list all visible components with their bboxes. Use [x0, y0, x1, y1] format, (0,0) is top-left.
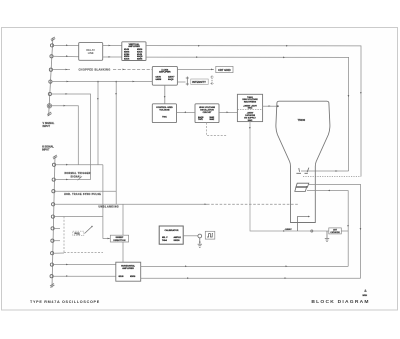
connector J1 body line — [49, 38, 53, 117]
J1 pin 2 — [50, 55, 53, 58]
CRT grid label box — [216, 66, 233, 72]
svg-text:AMPLIFIER: AMPLIFIER — [159, 71, 171, 74]
J2 pin 8 — [51, 252, 54, 255]
arrow h out2 mid — [285, 277, 287, 279]
cal out connector — [198, 234, 202, 238]
wire Z amp down to grid supply — [164, 85, 166, 104]
arrow down x348b — [347, 225, 349, 227]
arrow rect to crt — [269, 105, 271, 107]
CRT envelope — [276, 101, 330, 222]
svg-text:CRT GRID: CRT GRID — [218, 68, 231, 72]
intensity label — [191, 79, 208, 84]
connector J1 bottom break — [47, 112, 51, 116]
CRT gun hook — [298, 217, 310, 232]
arrow unblanking junction — [205, 203, 207, 205]
arrow pin5 wire — [66, 93, 68, 95]
CRT upper deflection plates — [296, 168, 309, 174]
wire unblanking dashed to CRT — [207, 203, 299, 205]
connector J2 bottom break — [50, 284, 54, 288]
arrow VA out1 a — [198, 45, 200, 47]
arrow pin2 wire — [66, 55, 68, 57]
arrow down x360 — [360, 228, 362, 230]
arrow VA out2 a — [196, 56, 198, 58]
svg-text:6DK6: 6DK6 — [130, 276, 136, 278]
svg-text:TYPE RM47A OSCILLOSCOPE: TYPE RM47A OSCILLOSCOPE — [30, 300, 100, 304]
svg-text:POS.: POS. — [75, 233, 81, 236]
svg-text:INTENSITY: INTENSITY — [192, 80, 206, 84]
CRT lower deflection element — [295, 183, 309, 191]
wire pin5 — [52, 94, 91, 180]
svg-text:6AQ5: 6AQ5 — [168, 78, 174, 81]
sweep direction label box — [110, 235, 128, 242]
switch arm — [85, 227, 93, 234]
svg-text:CIRCUIT: CIRCUIT — [203, 112, 212, 114]
svg-text:CATHODE: CATHODE — [330, 231, 340, 234]
wire rectifier bottom to cathode — [250, 122, 329, 231]
delay line box — [79, 43, 103, 61]
arrow down x348 — [348, 95, 350, 97]
horizontal amplifier box — [116, 262, 141, 281]
J2 pin 1 — [52, 163, 55, 166]
arrow into grid supply — [184, 111, 186, 113]
intensity control dagger 1 — [186, 77, 189, 86]
arrow dl-va bottom — [109, 56, 111, 58]
cathode wire connector circle — [311, 230, 313, 232]
vertical amplifier box U2 — [122, 42, 146, 61]
vertical from pin4 branch at x116 — [115, 82, 117, 205]
svg-text:DIRECTION: DIRECTION — [113, 240, 125, 242]
ground below cal out — [198, 238, 202, 247]
svg-text:CHOPPED BLANKING: CHOPPED BLANKING — [79, 67, 111, 71]
arrow pin1 wire — [66, 44, 68, 46]
wire J2 pin7 stub — [54, 240, 60, 242]
junction dot x116 — [115, 81, 117, 83]
J1 pin 5 — [48, 92, 51, 95]
arrow j2p1 — [66, 164, 68, 166]
POS dashed label box — [73, 231, 84, 235]
wire lower plate upper to right — [309, 185, 361, 279]
svg-text:BLOCK DIAGRAM: BLOCK DIAGRAM — [311, 299, 369, 305]
wire J2 pin5 to switch — [55, 215, 104, 217]
connector J2 body line — [50, 155, 57, 288]
wire J2 pin9 to horiz amp — [54, 264, 116, 266]
svg-text:6AU6: 6AU6 — [124, 58, 130, 61]
arrow cathode wire — [283, 230, 285, 232]
wire into sweep direction label — [103, 238, 110, 240]
svg-text:6AW8: 6AW8 — [156, 78, 163, 81]
arrow VA out2 b — [283, 57, 285, 59]
arrow VA out1 b — [286, 45, 288, 47]
CRT grid supply box — [152, 104, 176, 123]
J2 pin 5 — [51, 215, 54, 218]
CRT cathode label box — [329, 228, 342, 234]
wire upper deflection plate A — [301, 170, 349, 172]
svg-text:INPUT: INPUT — [42, 149, 50, 152]
svg-text:SWEEP: SWEEP — [115, 237, 123, 239]
wire calibrator to cal out — [183, 235, 198, 237]
svg-text:INPUT: INPUT — [43, 125, 51, 128]
wire J2 pin2 — [55, 179, 90, 181]
connector J1 top break — [51, 37, 55, 41]
arrow chopped blanking wire — [123, 69, 125, 71]
arrow pin6 wire — [64, 105, 66, 107]
wire HV osc bottom dashed to CRT — [207, 123, 228, 136]
wire delay line to vertical amp top — [103, 45, 122, 47]
junction dot x98 — [97, 81, 99, 83]
ground below cathode wire — [325, 231, 329, 242]
trigger label pointer — [78, 176, 83, 180]
wire J2 pin1 trigger — [56, 164, 103, 166]
svg-text:CALIBRATOR: CALIBRATOR — [165, 229, 179, 232]
calibrator box — [159, 226, 183, 244]
wire VA output upper to right then down — [146, 46, 361, 177]
arrow down x361 — [360, 92, 362, 94]
svg-text:6DJ8: 6DJ8 — [119, 276, 125, 278]
intensity control dagger 2 — [211, 76, 214, 86]
svg-text:RECTIFIERS: RECTIFIERS — [244, 102, 257, 104]
svg-text:MRH: MRH — [363, 295, 368, 297]
arrow down x116 — [115, 93, 117, 95]
wire J2 pin6 stub — [54, 227, 60, 229]
wire pin6 — [51, 106, 78, 165]
svg-text:6DK6: 6DK6 — [137, 59, 143, 61]
connector J2 top break — [53, 155, 57, 159]
wire lower plate lower to right — [307, 191, 348, 267]
wire Z amp lower to intensity — [177, 81, 185, 83]
arrow plate wire A — [336, 170, 338, 172]
square wave symbol box — [205, 231, 215, 239]
arrow gun hook — [308, 216, 310, 218]
arrow j2p9 — [66, 264, 68, 266]
arrow z to crt grid — [211, 69, 213, 71]
J1 pin 4 — [49, 80, 52, 83]
arrow pin4 wire — [67, 81, 69, 83]
arrow plate wire — [328, 190, 330, 192]
high voltage oscillator box — [195, 104, 219, 123]
wire pin2 to delay line — [53, 55, 79, 58]
J2 pin 7 — [51, 239, 54, 242]
wire J2 pin10 to horiz amp — [53, 275, 116, 277]
wire delay line to vertical amp bottom — [103, 56, 122, 58]
wire cathode label to right — [341, 230, 348, 232]
wire pin3 chopped blanking to Z amp — [53, 69, 71, 71]
svg-text:AMPLIFIER: AMPLIFIER — [122, 267, 134, 270]
J1 pin 3 — [49, 68, 52, 71]
svg-text:LINE: LINE — [88, 51, 94, 55]
J2 pin 3 — [52, 190, 55, 193]
svg-text:-1850V: -1850V — [285, 229, 293, 231]
svg-text:HOR. TRACE SYNC PULSE: HOR. TRACE SYNC PULSE — [64, 193, 101, 196]
J1 pin 1 — [50, 44, 53, 47]
wire vertical x103 trigger trunk — [102, 165, 104, 239]
wire horiz amp output 1 — [141, 265, 349, 267]
svg-text:T494: T494 — [162, 239, 168, 242]
svg-text:VOLTAGE: VOLTAGE — [159, 109, 170, 112]
J2 pin 9 — [50, 263, 53, 266]
wire HV osc to rectifier — [219, 111, 237, 113]
arrow into sweep direction box — [108, 238, 110, 240]
wire vertical x123 to generator — [122, 204, 124, 262]
wire Z amp to CRT grid label — [177, 69, 214, 71]
wire upper deflection plate B dotted — [303, 176, 361, 178]
J2 pin 10 — [50, 275, 53, 278]
wire VA output lower to right then down — [146, 57, 349, 171]
J1 pin 6 double — [47, 104, 51, 108]
J2 pin 6 — [51, 227, 54, 230]
wire J2 pin4 unblanking solid part — [55, 203, 207, 205]
arrow pin3 wire — [66, 69, 68, 71]
svg-text:T5030: T5030 — [298, 118, 306, 122]
junction dot CRT anode wire — [277, 105, 279, 107]
vertical from pin4 branch at x98 — [97, 82, 99, 165]
horizontal display switch dashed box — [64, 216, 103, 252]
arrow down rect bottom — [249, 127, 251, 129]
arrow cal ground stem — [199, 242, 201, 244]
arrow down to grid supply — [164, 96, 166, 98]
svg-text:AMPLE: AMPLE — [174, 236, 182, 239]
svg-text:SWD5: SWD5 — [174, 240, 181, 242]
arrow h out2 — [187, 277, 189, 279]
svg-text:AMPLIFIER: AMPLIFIER — [128, 45, 140, 48]
svg-text:UNBLANKING: UNBLANKING — [99, 205, 120, 208]
arrow down x98 — [97, 98, 99, 100]
wire J2 pin3 sync — [55, 190, 116, 192]
wire rectifier to CRT — [263, 105, 278, 107]
arrow j2p10 — [66, 275, 68, 277]
wire pin1 to delay line — [54, 44, 79, 46]
arrow j2p2 — [66, 179, 68, 181]
arrow pin4 wire mid — [133, 81, 135, 83]
arrow into rectifier — [227, 111, 229, 113]
wire horiz amp output 2 — [141, 277, 361, 279]
wire HV osc to grid supply — [177, 111, 196, 113]
arrow h out1 — [185, 265, 187, 267]
Z axis amplifier box — [152, 66, 177, 85]
arrow dl-va top — [109, 45, 111, 47]
wire pin4 trunk — [52, 81, 152, 83]
wire J2 pin8 stub — [54, 252, 64, 254]
HV rectifier box — [237, 94, 262, 121]
J2 pin 2 — [52, 178, 55, 181]
arrow h out1 mid — [286, 265, 288, 267]
J2 pin 4 — [52, 203, 55, 206]
svg-text:T601: T601 — [198, 119, 204, 121]
